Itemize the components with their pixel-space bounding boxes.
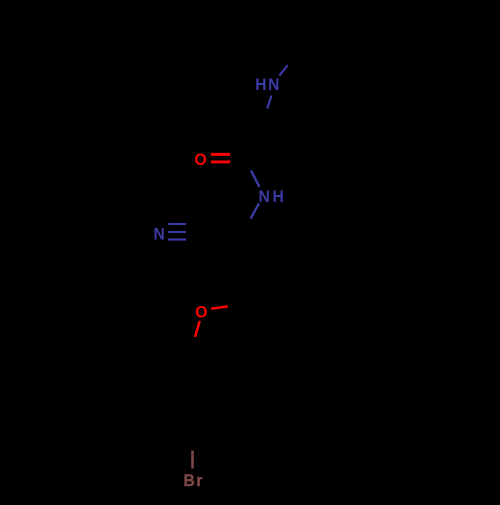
svg-text:N: N	[154, 225, 165, 244]
bond C(=O)-N half (blue, above amide NH)	[251, 171, 259, 187]
svg-text:N: N	[259, 188, 270, 207]
svg-text:N: N	[268, 76, 279, 95]
bond N-C half (blue, down from amine N)	[267, 96, 271, 109]
bond C-Br half (dark red, vertical above Br)	[191, 451, 194, 469]
amide NH label	[259, 188, 284, 207]
svg-text:O: O	[195, 303, 207, 322]
svg-text:H: H	[273, 188, 284, 207]
C=O double bond upper half (red)	[211, 153, 230, 156]
amine HN label (top)	[255, 76, 279, 95]
C=O double bond lower half (red)	[211, 160, 230, 163]
svg-text:B: B	[184, 471, 195, 490]
bond N-C half (blue, below amide NH going down-left)	[251, 203, 259, 218]
svg-text:O: O	[195, 151, 207, 170]
bond O-C half (red, down-left from ether O)	[195, 321, 200, 337]
C#N triple bond top line half (blue)	[168, 223, 186, 225]
C#N triple bond middle line half (blue)	[168, 231, 186, 233]
svg-text:H: H	[255, 76, 266, 95]
svg-text:r: r	[196, 471, 203, 490]
C#N triple bond bottom line half (blue)	[168, 238, 186, 240]
bond O-C half (red, to the right of ether O)	[211, 306, 228, 308]
bond N-CH3 half (blue, up-right from amine N)	[279, 65, 287, 76]
Br label	[184, 471, 204, 490]
